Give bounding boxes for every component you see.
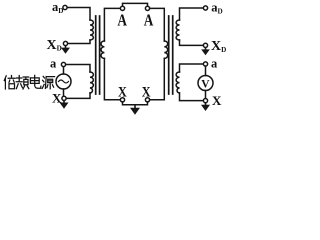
svg-text:aD: aD (211, 1, 222, 16)
wire a right to winding (180, 64, 204, 72)
wire T1 secondary top to A1 (104, 8, 120, 41)
coil P2 lower-left primary (90, 72, 93, 93)
wire winding to XD right (180, 40, 204, 45)
coil T2 secondary (164, 41, 167, 58)
wire aD left to winding (67, 8, 90, 21)
svg-text:A: A (117, 11, 127, 30)
svg-text:A: A (144, 11, 154, 30)
coil P3 upper-right primary (176, 20, 179, 40)
core T1 left bar1 (95, 16, 97, 94)
core T1 left bar2 (99, 16, 101, 94)
wire X left to winding (66, 93, 90, 98)
ground arrow center (130, 105, 140, 115)
terminal X1 (120, 98, 124, 102)
AC source sine (59, 80, 69, 83)
terminal X left (62, 96, 66, 100)
terminal A1 (120, 6, 124, 10)
terminal X2 (145, 98, 149, 102)
wire A2 to T2 secondary top (150, 8, 165, 41)
wire winding to X right (180, 93, 204, 101)
bridge wire A1-A2 (123, 3, 148, 6)
terminal aD left (63, 5, 67, 9)
voltmeter V circle (198, 76, 213, 91)
svg-text:aD: aD (52, 0, 63, 15)
coil P4 lower-right primary (176, 72, 179, 93)
ground arrow XD right (201, 48, 210, 56)
wire a left to winding (66, 65, 90, 73)
wire T1 secondary bottom to X1 (104, 58, 120, 99)
terminal XD left (63, 41, 67, 45)
coil T1 secondary (101, 41, 104, 58)
voltmeter stub bottom (205, 91, 207, 99)
ground arrow XD left (61, 46, 70, 54)
coil P1 upper-left primary (90, 20, 93, 40)
源 (42, 76, 54, 88)
svg-text:X: X (212, 93, 222, 108)
倍 (4, 76, 15, 90)
AC source stub bottom (63, 89, 65, 96)
AC source circle (倍频电源) (56, 74, 71, 89)
terminal aD right (203, 6, 207, 10)
terminal X right (203, 99, 207, 103)
AC source stub top (63, 67, 65, 74)
ground arrow X right (201, 103, 210, 111)
terminal a left (61, 62, 65, 66)
terminal A2 (145, 6, 149, 10)
svg-text:V: V (201, 78, 210, 90)
svg-text:XD: XD (47, 38, 62, 53)
label 倍频电源 (hand-drawn glyphs) (4, 75, 54, 89)
电 (30, 75, 40, 88)
svg-text:XD: XD (211, 39, 226, 54)
wire winding to XD left (68, 40, 90, 44)
voltmeter stub top (205, 66, 207, 75)
ground arrow X left (60, 101, 69, 109)
terminal a right (203, 62, 207, 66)
svg-text:a: a (211, 57, 218, 71)
ground bus X1-X2 (123, 102, 148, 105)
wire aD right to winding (180, 8, 204, 20)
core T2 right bar1 (168, 16, 170, 94)
svg-text:a: a (50, 57, 57, 71)
core T2 right bar2 (172, 16, 174, 94)
频 (16, 76, 29, 90)
wire T2 secondary bottom to X2 (150, 58, 165, 99)
terminal XD right (203, 43, 207, 47)
